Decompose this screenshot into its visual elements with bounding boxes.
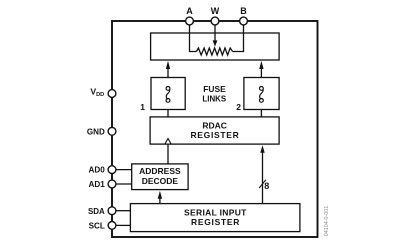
svg-text:AD0: AD0 bbox=[89, 165, 105, 175]
svg-text:RDAC: RDAC bbox=[202, 121, 227, 131]
svg-text:DECODE: DECODE bbox=[142, 176, 179, 186]
wire fuse1 down to RDAC register bbox=[167, 110, 169, 118]
resistor array box bbox=[151, 33, 280, 60]
fuse links box 1 bbox=[151, 78, 185, 110]
svg-text:W: W bbox=[211, 6, 220, 16]
arrowhead bus into RDAC bbox=[260, 145, 264, 153]
wire serial register to address decode bbox=[159, 198, 161, 204]
bus width slash mark bbox=[259, 180, 266, 188]
outer boundary box bbox=[112, 21, 318, 237]
pin VDD circle bbox=[108, 90, 116, 98]
pin W terminal circle bbox=[211, 17, 219, 25]
svg-text:A: A bbox=[186, 6, 193, 16]
pin AD1 circle bbox=[108, 180, 116, 188]
svg-text:GND: GND bbox=[87, 126, 105, 136]
svg-text:ADDRESS: ADDRESS bbox=[139, 166, 181, 176]
svg-text:SDA: SDA bbox=[88, 206, 105, 216]
arrowhead wiper onto resistor bbox=[213, 40, 218, 46]
pin SDA circle bbox=[108, 207, 116, 215]
8-bit bus wire serial register to RDAC bbox=[262, 152, 264, 203]
svg-text:1: 1 bbox=[140, 102, 145, 112]
fuse symbol 1 bbox=[166, 87, 170, 103]
wire B to resistor right end bbox=[233, 25, 244, 52]
open arrowhead address decode into RDAC bbox=[165, 139, 171, 145]
svg-text:SCL: SCL bbox=[89, 220, 105, 230]
wire address decode to RDAC bbox=[167, 144, 169, 164]
wire fuse2 up to resistor box bbox=[260, 68, 262, 78]
svg-text:8: 8 bbox=[264, 181, 269, 191]
wire pin AD0 to address decode bbox=[116, 169, 132, 171]
svg-text:B: B bbox=[240, 6, 247, 16]
arrowhead serial into address decode bbox=[158, 191, 162, 199]
fuse symbol 2 bbox=[260, 87, 264, 103]
svg-text:04104-0-001: 04104-0-001 bbox=[324, 206, 330, 237]
svg-text:LINKS: LINKS bbox=[202, 93, 226, 103]
wire pin SDA to serial register bbox=[116, 210, 130, 212]
wire fuse1 up to resistor box bbox=[167, 68, 169, 78]
arrowhead fuse1 into resistor box bbox=[166, 61, 170, 69]
pin GND circle bbox=[108, 127, 116, 135]
pin AD0 circle bbox=[108, 166, 116, 174]
arrowhead fuse2 into resistor box bbox=[259, 61, 263, 69]
svg-text:AD1: AD1 bbox=[89, 179, 105, 189]
wire pin SCL to serial register bbox=[116, 224, 130, 226]
fuse links box 2 bbox=[244, 78, 279, 110]
RDAC register box bbox=[150, 117, 279, 144]
serial input register box bbox=[130, 204, 300, 232]
wire fuse2 down to RDAC register bbox=[260, 110, 262, 118]
pin A terminal circle bbox=[186, 17, 194, 25]
pin SCL circle bbox=[108, 222, 116, 230]
wire pin AD1 to address decode bbox=[116, 183, 132, 185]
wiper W arrow wire bbox=[214, 25, 216, 42]
svg-text:2: 2 bbox=[236, 102, 241, 112]
svg-text:REGISTER: REGISTER bbox=[191, 217, 239, 227]
wire A to resistor left end bbox=[190, 25, 197, 52]
address decode box bbox=[132, 164, 188, 190]
svg-text:VDD: VDD bbox=[90, 87, 104, 99]
resistor zigzag RAB bbox=[196, 48, 232, 55]
pin B terminal circle bbox=[240, 17, 248, 25]
svg-text:REGISTER: REGISTER bbox=[190, 130, 238, 140]
